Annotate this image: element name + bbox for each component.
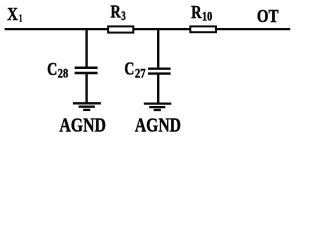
label AGND 2	[135, 115, 181, 136]
svg-text:10: 10	[202, 10, 212, 24]
svg-text:C: C	[124, 58, 134, 78]
svg-text:1: 1	[19, 13, 22, 25]
svg-text:AGND: AGND	[59, 116, 106, 137]
node X1 label	[7, 4, 22, 24]
svg-text:3: 3	[121, 9, 125, 23]
wire: R10 to OT output	[217, 28, 291, 30]
label C28	[47, 59, 69, 80]
svg-text:28: 28	[58, 65, 69, 80]
wire: X1 to R3 left terminal	[5, 28, 108, 30]
label AGND 1	[59, 116, 106, 137]
node OT label	[257, 6, 279, 26]
resistor R10	[190, 26, 216, 32]
wire: C27 bottom plate to ground	[157, 74, 159, 104]
ground AGND 2	[144, 104, 172, 110]
capacitor C28	[75, 68, 98, 73]
wire: node A down to C28 top plate	[85, 28, 87, 68]
label R3	[111, 2, 126, 24]
resistor R3	[108, 26, 133, 32]
svg-text:R: R	[111, 2, 121, 22]
svg-text:X: X	[7, 4, 18, 24]
label C27	[124, 58, 146, 80]
svg-text:C: C	[47, 59, 57, 79]
wire: node B down to C27 top plate	[157, 28, 159, 69]
label R10	[191, 2, 212, 23]
wire: C28 bottom plate to ground	[85, 73, 87, 103]
capacitor C27	[148, 69, 171, 74]
svg-text:27: 27	[135, 65, 146, 80]
svg-text:R: R	[191, 2, 202, 22]
ground AGND 1	[73, 103, 101, 110]
svg-text:AGND: AGND	[135, 115, 181, 136]
wire: R3 to R10	[134, 28, 190, 30]
svg-text:OT: OT	[257, 6, 279, 26]
